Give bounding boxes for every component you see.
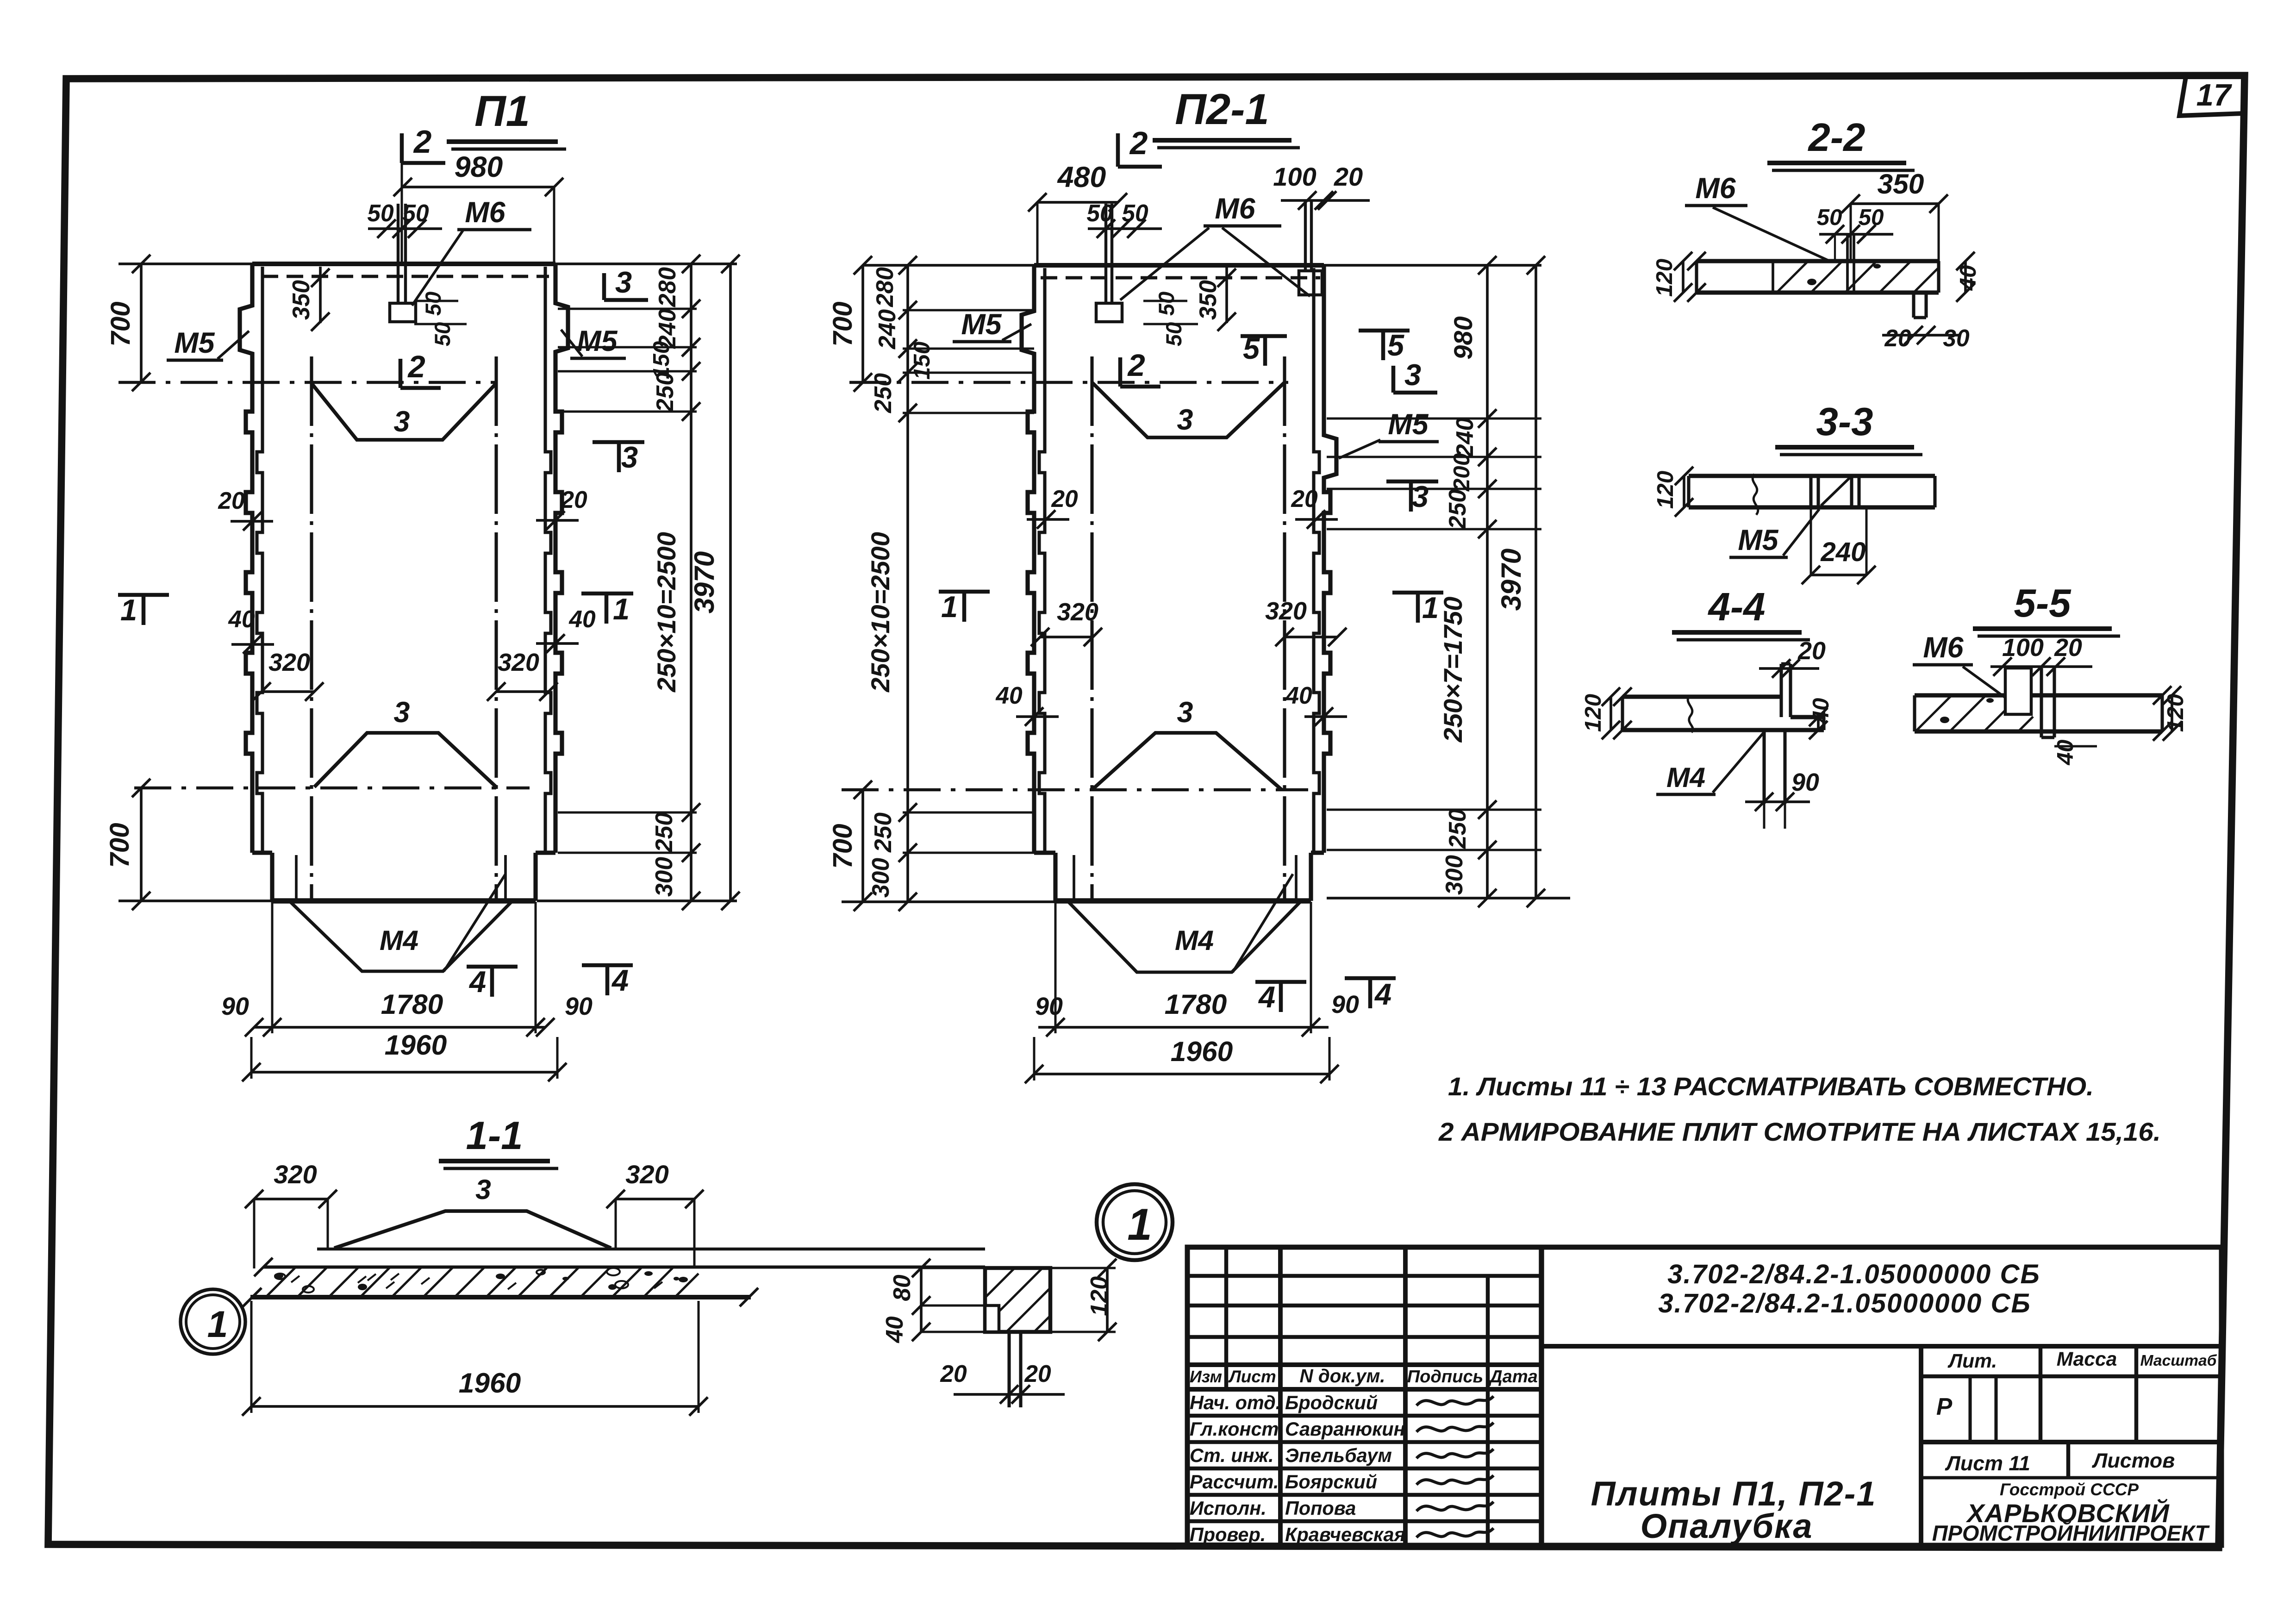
svg-text:250: 250 [869, 373, 896, 413]
svg-text:3: 3 [394, 696, 410, 729]
svg-text:1: 1 [120, 593, 137, 627]
svg-text:100: 100 [1273, 162, 1316, 191]
svg-text:1. Листы 11 ÷ 13 РАССМАТРИВАТЬ: 1. Листы 11 ÷ 13 РАССМАТРИВАТЬ СОВМЕСТНО… [1448, 1072, 2094, 1101]
svg-text:240: 240 [873, 309, 900, 350]
svg-text:М5: М5 [961, 308, 1002, 341]
svg-text:700: 700 [828, 301, 858, 346]
svg-text:50: 50 [421, 292, 445, 316]
svg-text:40: 40 [1285, 682, 1312, 709]
svg-text:1: 1 [941, 590, 958, 624]
svg-text:Масштаб: Масштаб [2140, 1352, 2217, 1369]
svg-text:90: 90 [565, 993, 593, 1020]
svg-text:40: 40 [881, 1316, 908, 1343]
svg-text:240: 240 [1820, 537, 1865, 567]
svg-text:Исполн.: Исполн. [1190, 1497, 1267, 1519]
svg-text:20: 20 [1797, 637, 1826, 665]
svg-text:3970: 3970 [1495, 548, 1527, 611]
svg-text:350: 350 [287, 280, 314, 320]
svg-text:300: 300 [1441, 855, 1467, 895]
svg-text:1: 1 [207, 1304, 228, 1345]
svg-text:3: 3 [1177, 404, 1193, 436]
svg-text:280: 280 [654, 267, 680, 307]
svg-text:М6: М6 [1923, 631, 1964, 664]
svg-text:4: 4 [1258, 980, 1275, 1014]
svg-text:250×10=2500: 250×10=2500 [652, 532, 681, 693]
svg-text:Лист: Лист [1228, 1367, 1276, 1386]
svg-text:1780: 1780 [381, 988, 443, 1020]
svg-text:20: 20 [1291, 485, 1318, 512]
svg-text:40: 40 [2053, 740, 2078, 766]
svg-text:М5: М5 [1738, 524, 1778, 556]
svg-text:1: 1 [1127, 1200, 1152, 1249]
svg-text:3.702-2/84.2-1.05000000 СБ: 3.702-2/84.2-1.05000000 СБ [1658, 1288, 2031, 1318]
svg-text:20: 20 [1334, 162, 1363, 191]
svg-text:250×10=2500: 250×10=2500 [866, 532, 895, 693]
svg-text:5-5: 5-5 [2014, 581, 2071, 625]
svg-text:ПРОМСТРОЙНИИПРОЕКТ: ПРОМСТРОЙНИИПРОЕКТ [1932, 1521, 2210, 1545]
svg-text:Дата: Дата [1488, 1367, 1538, 1387]
svg-text:1-1: 1-1 [466, 1114, 523, 1158]
svg-text:2 АРМИРОВАНИЕ ПЛИТ СМОТРИТЕ НА: 2 АРМИРОВАНИЕ ПЛИТ СМОТРИТЕ НА ЛИСТАХ 15… [1438, 1117, 2161, 1146]
svg-text:Боярский: Боярский [1285, 1471, 1377, 1493]
svg-text:350: 350 [1194, 280, 1221, 320]
svg-text:700: 700 [828, 824, 858, 868]
svg-text:150: 150 [909, 342, 935, 380]
svg-text:480: 480 [1057, 161, 1106, 194]
svg-text:2: 2 [407, 350, 425, 384]
svg-text:5: 5 [1387, 328, 1404, 362]
svg-text:240: 240 [1451, 418, 1478, 458]
svg-text:Масса: Масса [2057, 1348, 2117, 1370]
svg-text:3.702-2/84.2-1.05000000 СБ: 3.702-2/84.2-1.05000000 СБ [1667, 1259, 2040, 1289]
svg-text:50: 50 [1161, 322, 1186, 346]
svg-text:3: 3 [621, 440, 638, 474]
svg-text:М6: М6 [1695, 172, 1736, 205]
svg-text:4: 4 [611, 963, 629, 997]
svg-text:250×7=1750: 250×7=1750 [1438, 597, 1467, 743]
svg-text:Бродский: Бродский [1285, 1392, 1378, 1413]
svg-text:250: 250 [651, 372, 678, 412]
svg-text:3: 3 [1177, 696, 1193, 729]
svg-text:40: 40 [995, 682, 1023, 709]
svg-text:2: 2 [1127, 348, 1145, 383]
svg-text:320: 320 [1265, 597, 1307, 625]
svg-text:20: 20 [560, 486, 587, 513]
svg-text:Листов: Листов [2092, 1449, 2175, 1472]
svg-text:250: 250 [1444, 489, 1471, 530]
svg-text:300: 300 [867, 858, 894, 898]
svg-text:Лит.: Лит. [1947, 1350, 1997, 1372]
svg-text:2-2: 2-2 [1807, 116, 1865, 160]
svg-text:П2-1: П2-1 [1175, 85, 1269, 133]
svg-text:80: 80 [888, 1274, 915, 1301]
svg-text:Попова: Попова [1285, 1497, 1356, 1519]
svg-text:20: 20 [940, 1360, 967, 1387]
svg-text:1960: 1960 [1171, 1036, 1233, 1067]
svg-text:Гл.конст.: Гл.конст. [1190, 1418, 1284, 1440]
svg-text:120: 120 [1652, 259, 1677, 297]
svg-text:3: 3 [1412, 480, 1429, 513]
svg-text:4: 4 [468, 965, 486, 999]
svg-text:Рассчит.: Рассчит. [1190, 1471, 1279, 1493]
svg-text:17: 17 [2196, 78, 2232, 112]
svg-text:250: 250 [869, 812, 896, 853]
svg-text:50: 50 [1859, 205, 1884, 230]
svg-text:Ст. инж.: Ст. инж. [1190, 1444, 1274, 1466]
svg-text:3970: 3970 [688, 551, 720, 613]
svg-text:5: 5 [1243, 331, 1260, 365]
svg-text:700: 700 [106, 301, 136, 346]
svg-text:40: 40 [568, 606, 596, 632]
svg-text:90: 90 [1331, 991, 1359, 1018]
svg-text:20: 20 [1051, 485, 1078, 512]
svg-text:4: 4 [1374, 977, 1391, 1011]
svg-text:700: 700 [105, 823, 135, 868]
svg-text:20: 20 [1024, 1360, 1051, 1387]
svg-text:М5: М5 [577, 325, 618, 357]
svg-text:М4: М4 [380, 924, 418, 956]
svg-text:120: 120 [1580, 694, 1606, 732]
svg-text:Савранюкин: Савранюкин [1285, 1418, 1405, 1440]
svg-text:3: 3 [475, 1174, 491, 1205]
svg-text:200: 200 [1449, 453, 1474, 492]
svg-text:120: 120 [1653, 471, 1678, 509]
svg-text:280: 280 [871, 267, 898, 307]
svg-text:4-4: 4-4 [1707, 585, 1765, 629]
svg-text:50: 50 [1154, 292, 1179, 316]
svg-text:90: 90 [1035, 993, 1063, 1020]
svg-text:3: 3 [394, 406, 410, 438]
svg-text:3: 3 [615, 265, 632, 299]
svg-text:3-3: 3-3 [1816, 400, 1873, 444]
svg-text:320: 320 [498, 649, 539, 676]
svg-text:20: 20 [2054, 634, 2082, 662]
svg-text:1: 1 [613, 592, 630, 626]
svg-text:350: 350 [1878, 168, 1924, 200]
svg-text:250: 250 [1444, 809, 1471, 849]
svg-text:320: 320 [268, 649, 310, 676]
svg-text:Опалубка: Опалубка [1641, 1507, 1813, 1545]
svg-text:Эпельбаум: Эпельбаум [1285, 1444, 1392, 1466]
svg-text:Р: Р [1936, 1393, 1953, 1420]
svg-text:Провер.: Провер. [1190, 1524, 1266, 1545]
svg-text:Изм: Изм [1190, 1368, 1222, 1386]
svg-text:Госстрой СССР: Госстрой СССР [2000, 1480, 2139, 1499]
svg-text:N док.ум.: N док.ум. [1300, 1365, 1385, 1387]
svg-text:40: 40 [228, 606, 255, 632]
svg-text:90: 90 [221, 993, 249, 1020]
svg-text:320: 320 [625, 1160, 668, 1189]
svg-text:100: 100 [2002, 634, 2044, 662]
svg-text:Нач. отд.: Нач. отд. [1190, 1392, 1281, 1413]
svg-text:1960: 1960 [459, 1367, 521, 1399]
svg-text:50: 50 [1817, 205, 1842, 230]
svg-text:2: 2 [413, 124, 432, 160]
svg-text:М4: М4 [1175, 924, 1214, 956]
svg-text:1780: 1780 [1165, 988, 1227, 1020]
svg-text:М5: М5 [1388, 408, 1429, 441]
svg-text:2: 2 [1129, 125, 1148, 161]
svg-text:40: 40 [1808, 698, 1834, 724]
svg-text:300: 300 [650, 857, 677, 897]
svg-text:50: 50 [430, 322, 455, 346]
svg-text:320: 320 [1057, 598, 1098, 626]
svg-text:20: 20 [218, 487, 245, 514]
svg-text:1: 1 [1422, 591, 1439, 625]
svg-text:М6: М6 [1215, 193, 1255, 225]
svg-text:250: 250 [650, 812, 677, 853]
svg-text:320: 320 [274, 1160, 317, 1189]
svg-text:Лист 11: Лист 11 [1945, 1452, 2030, 1475]
svg-text:50: 50 [1086, 200, 1113, 226]
svg-text:М6: М6 [465, 196, 505, 229]
svg-text:20: 20 [1884, 325, 1911, 351]
svg-text:40: 40 [1955, 265, 1981, 291]
svg-text:Кравчевская: Кравчевская [1285, 1524, 1405, 1545]
svg-text:3: 3 [1404, 358, 1421, 392]
svg-text:90: 90 [1791, 768, 1819, 796]
svg-text:980: 980 [1448, 316, 1478, 359]
svg-text:980: 980 [455, 151, 503, 183]
svg-text:Подпись: Подпись [1407, 1367, 1484, 1387]
svg-text:1960: 1960 [385, 1029, 447, 1061]
svg-text:П1: П1 [474, 87, 530, 135]
svg-text:50: 50 [367, 200, 394, 226]
svg-text:М4: М4 [1666, 762, 1705, 793]
svg-text:М5: М5 [174, 327, 215, 359]
svg-text:30: 30 [1943, 325, 1970, 351]
